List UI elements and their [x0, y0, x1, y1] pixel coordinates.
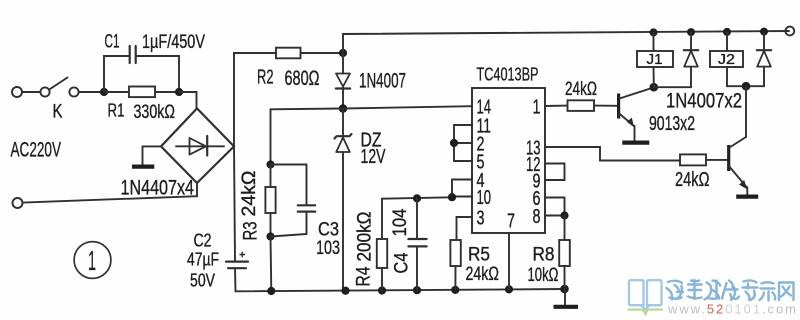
node F (J2/D3/Q2 collector)	[742, 82, 751, 91]
svg-text:1: 1	[533, 97, 541, 119]
svg-text:680Ω: 680Ω	[285, 67, 320, 90]
resistor R2	[276, 48, 343, 59]
ground G3 (Q2 emitter)	[736, 195, 758, 199]
label R4 200k (vertical)	[354, 212, 376, 287]
svg-text:24kΩ: 24kΩ	[565, 79, 597, 100]
svg-text:AC220V: AC220V	[11, 138, 62, 162]
watermark book base (green)	[628, 310, 664, 315]
svg-text:R1: R1	[108, 101, 125, 121]
pins 12/9 bracket	[545, 164, 565, 181]
svg-text:R8: R8	[533, 245, 555, 266]
svg-text:R4: R4	[354, 266, 375, 286]
svg-text:1: 1	[88, 245, 96, 276]
diode D3 (1N4007 flyback J2)	[746, 28, 771, 87]
svg-text:www.520101.com: www.520101.com	[667, 302, 798, 317]
ground G1 (bridge left)	[132, 146, 161, 166]
resistor R1	[104, 87, 179, 98]
relay J2	[710, 28, 746, 86]
node A	[100, 88, 108, 96]
svg-text:9013x2: 9013x2	[649, 113, 695, 135]
ground G2 (Q1 emitter)	[622, 141, 649, 145]
svg-text:200kΩ: 200kΩ	[355, 212, 376, 262]
capacitor C1	[104, 46, 179, 92]
wire node B to bridge top	[179, 92, 197, 108]
wire pin 13 to R7	[545, 147, 680, 161]
resistor R8	[559, 216, 570, 290]
wire bridge right vertex down to C2	[234, 146, 235, 261]
wire pin 7 to rail	[508, 233, 510, 289]
circled figure number 1	[74, 242, 111, 279]
resistor R5 (pin 3)	[450, 217, 472, 290]
pins 11/2/5 bracket	[450, 125, 472, 161]
svg-text:R5: R5	[468, 245, 490, 266]
svg-text:K: K	[53, 102, 63, 123]
wire L1 to switch	[22, 91, 40, 93]
label C4 104 (vertical)	[390, 208, 413, 273]
svg-text:50V: 50V	[190, 271, 215, 291]
wire node D to IC pin 14	[343, 106, 472, 108]
capacitor C2 (electrolytic)	[226, 252, 248, 291]
svg-text:47µF: 47µF	[187, 250, 219, 270]
pins 6/8 bracket	[545, 198, 569, 220]
node R3 top	[266, 160, 274, 168]
svg-text:104: 104	[390, 208, 411, 236]
resistor R3	[265, 165, 275, 237]
svg-text:TC4013BP: TC4013BP	[477, 65, 539, 85]
capacitor C4	[408, 194, 426, 290]
terminal R (top rail right)	[785, 27, 794, 36]
label R3 24k (vertical)	[239, 171, 262, 241]
wire bridge right vertex up to R2 row	[234, 53, 276, 146]
svg-text:J1: J1	[647, 51, 663, 68]
diode D2 (1N4007 flyback J1)	[654, 28, 698, 87]
ground G4 (rail end)	[554, 289, 579, 307]
svg-text:R2: R2	[257, 67, 274, 89]
switch K	[40, 78, 78, 97]
svg-text:C2: C2	[194, 231, 212, 251]
svg-text:1N4007x2: 1N4007x2	[666, 90, 742, 113]
bridge rectifier 1N4407x4	[161, 108, 234, 183]
svg-text:J2: J2	[718, 51, 735, 68]
svg-text:C1: C1	[105, 32, 120, 53]
svg-text:3: 3	[477, 208, 485, 230]
svg-text:24kΩ: 24kΩ	[466, 264, 500, 285]
resistor R7	[680, 154, 728, 165]
transistor Q2	[729, 86, 749, 194]
diode D1 1N4007	[336, 53, 350, 109]
terminal L1 (AC input top)	[12, 87, 22, 97]
resistor R6 (pin 1 to Q1)	[545, 100, 618, 111]
wire L2 to bridge bottom	[23, 184, 197, 203]
svg-text:103: 103	[316, 238, 340, 259]
terminal L2 (AC input bottom)	[13, 198, 23, 208]
zener DZ	[335, 109, 352, 291]
node R3 bottom	[266, 232, 274, 240]
capacitor C3	[271, 165, 316, 237]
svg-text:10kΩ: 10kΩ	[528, 265, 559, 286]
watermark chinese text (stylized strokes)	[667, 280, 794, 301]
node C	[339, 49, 347, 57]
transistor Q1	[619, 88, 654, 141]
node B	[175, 88, 183, 96]
watermark book icon	[629, 280, 662, 309]
op-amp U1 TC4013BP box	[472, 88, 545, 233]
svg-text:7: 7	[507, 211, 515, 233]
pins 4/10 bracket	[448, 180, 472, 202]
wire R4/C4 top row	[382, 197, 452, 198]
svg-text:24kΩ: 24kΩ	[239, 171, 260, 217]
svg-text:R3: R3	[241, 222, 262, 241]
svg-text:C4: C4	[392, 252, 413, 273]
node D	[339, 104, 348, 113]
wire node C to top rail	[343, 31, 789, 53]
svg-text:1N4007: 1N4007	[359, 70, 406, 93]
resistor R4	[377, 199, 387, 291]
node E (J1/D2/Q1 collector)	[650, 83, 659, 92]
svg-text:24kΩ: 24kΩ	[675, 169, 710, 191]
svg-text:8: 8	[533, 206, 541, 228]
bottom ground rail	[236, 289, 566, 291]
svg-text:12V: 12V	[361, 146, 386, 168]
svg-text:1µF/450V: 1µF/450V	[142, 32, 205, 53]
svg-text:330kΩ: 330kΩ	[134, 102, 176, 123]
wire switch to node A	[79, 91, 104, 93]
svg-text:10: 10	[477, 187, 492, 209]
wire node D left and down to R3	[271, 109, 344, 165]
relay J1	[637, 28, 673, 87]
rail junction dots	[267, 287, 275, 295]
wire R3 bottom to rail	[270, 237, 273, 292]
